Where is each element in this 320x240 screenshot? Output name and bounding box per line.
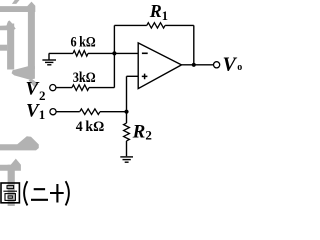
wire: feedback right riser bbox=[193, 25, 195, 64]
wire: 4k to junction bbox=[100, 111, 127, 113]
wire: plus riser down bbox=[126, 76, 128, 123]
node: output junction bbox=[192, 63, 196, 67]
terminal V1 bbox=[50, 109, 56, 115]
svg-text:2: 2 bbox=[39, 88, 46, 103]
resistor R1 (zigzag) bbox=[147, 23, 165, 28]
resistor 6k (zigzag) bbox=[73, 51, 88, 57]
glyph tu (figure) drawn bbox=[1, 183, 19, 203]
terminal V2 bbox=[50, 85, 56, 91]
wire: feedback left riser bbox=[113, 25, 115, 87]
wire: V1 to 4k bbox=[56, 111, 80, 113]
svg-text:R: R bbox=[132, 122, 146, 143]
op-amp U1 bbox=[138, 43, 181, 89]
resistor 3k (zigzag) bbox=[72, 85, 89, 91]
svg-text:4 kΩ: 4 kΩ bbox=[76, 119, 105, 135]
svg-text:3kΩ: 3kΩ bbox=[73, 70, 96, 86]
node: V1/R2 junction bbox=[124, 110, 128, 114]
svg-text:2: 2 bbox=[145, 128, 152, 143]
resistor R2 (vertical zigzag) bbox=[124, 123, 130, 141]
wire: V2 to 3k bbox=[56, 87, 72, 89]
watermark bottom character fragment bbox=[0, 136, 39, 206]
resistor 4k (zigzag) bbox=[80, 109, 100, 115]
wire: inverting input row bbox=[49, 52, 73, 54]
terminal Vo bbox=[214, 62, 220, 68]
caption figure number bbox=[1, 181, 69, 205]
wire: output bbox=[182, 64, 214, 66]
wire: plus input bbox=[127, 75, 139, 77]
glyph shi (ten) drawn bbox=[50, 184, 64, 203]
wire: feedback top left segment bbox=[114, 24, 146, 26]
svg-text:o: o bbox=[237, 62, 242, 73]
wire: R2 to ground bbox=[126, 141, 128, 156]
svg-text:6 kΩ: 6 kΩ bbox=[71, 34, 96, 50]
ground bottom bbox=[120, 157, 133, 162]
svg-text:R: R bbox=[149, 1, 162, 21]
wire: 3k to riser bbox=[89, 87, 114, 89]
glyph er (two) drawn bbox=[31, 189, 48, 200]
ground top-left bbox=[42, 53, 56, 64]
node: minus input junction bbox=[112, 51, 116, 55]
wire: 6k to op-amp minus bbox=[88, 52, 138, 54]
watermark top character fragment bbox=[0, 0, 39, 87]
svg-text:1: 1 bbox=[39, 107, 46, 122]
svg-text:V: V bbox=[26, 78, 40, 99]
svg-text:1: 1 bbox=[162, 9, 168, 23]
svg-text:V: V bbox=[223, 54, 238, 76]
wire: feedback top right segment bbox=[165, 24, 194, 26]
